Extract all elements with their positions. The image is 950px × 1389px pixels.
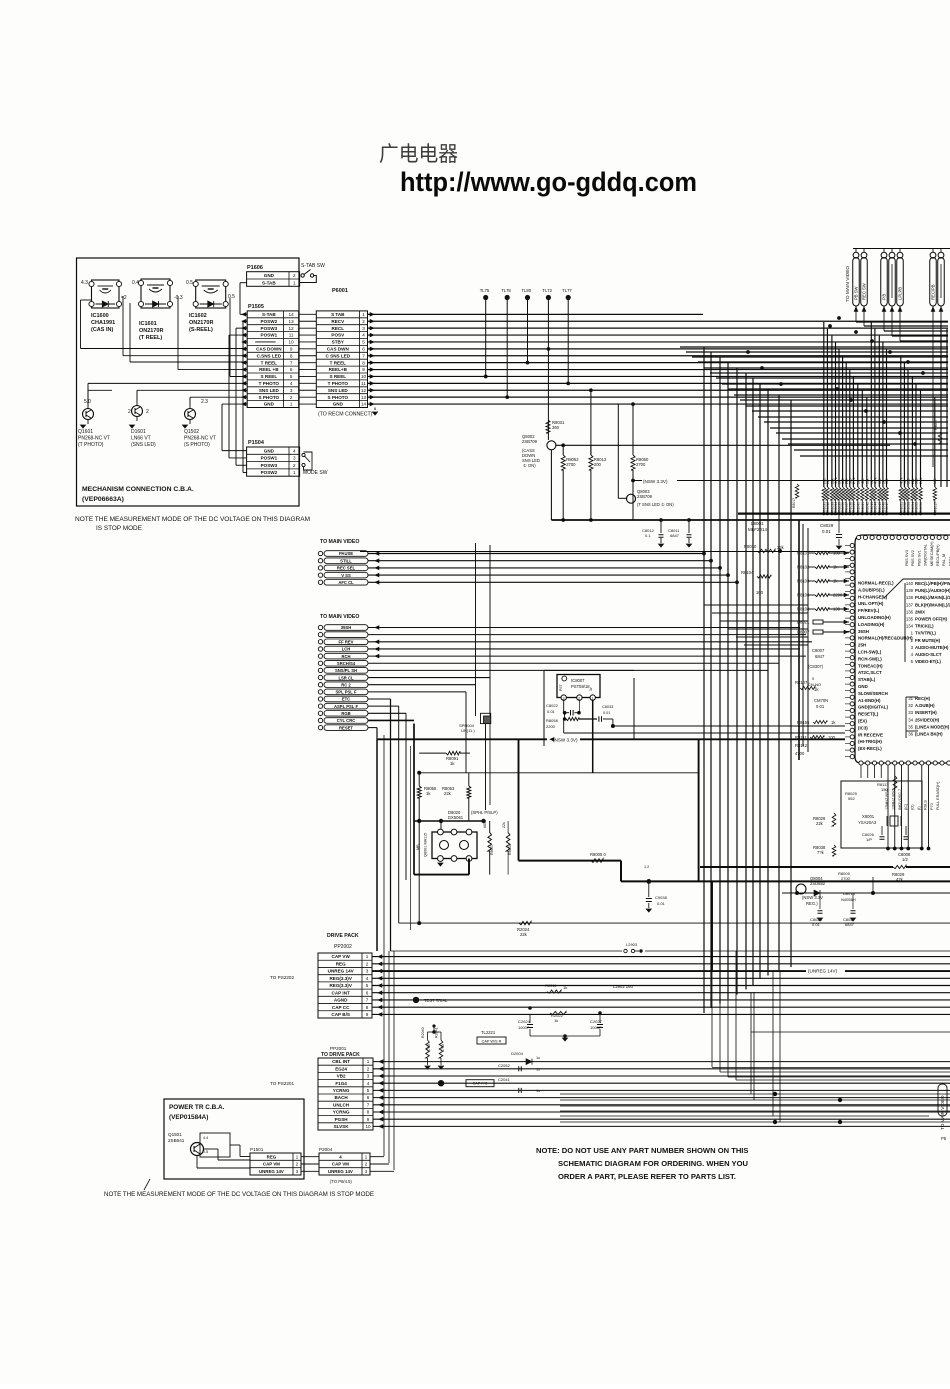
svg-text:CN-NO: CN-NO [808,682,821,687]
svg-text:R8041: R8041 [861,502,865,512]
svg-text:4: 4 [362,333,365,338]
svg-text:R8042: R8042 [865,502,869,512]
svg-text:RCH-SW(L): RCH-SW(L) [858,656,882,661]
svg-text:6847: 6847 [670,533,680,538]
svg-text:LCH: LCH [342,647,351,652]
svg-text:2SB709: 2SB709 [522,439,538,444]
svg-text:TO PS2202: TO PS2202 [270,975,294,980]
svg-text:C8022: C8022 [546,703,559,708]
svg-text:TV/VTR(L): TV/VTR(L) [915,631,936,636]
svg-text:100: 100 [756,590,764,595]
svg-text:TEST TRIAL: TEST TRIAL [424,998,448,1003]
svg-text:RECV: RECV [331,319,345,324]
svg-text:CHA1991: CHA1991 [91,320,115,326]
svg-text:GND: GND [333,402,344,407]
svg-text:1: 1 [366,954,369,959]
svg-text:AFC CL: AFC CL [338,580,354,585]
svg-text:R8044: R8044 [873,502,877,512]
svg-text:REG.): REG.) [806,901,818,906]
svg-text:PGSH: PGSH [335,1117,349,1122]
svg-text:2700: 2700 [636,462,646,467]
svg-text:R8104: R8104 [741,570,754,575]
svg-text:RESET: RESET [339,725,353,730]
svg-text:5: 5 [290,374,293,379]
svg-text:YCRNG: YCRNG [333,1110,350,1115]
svg-text:TRICK(L): TRICK(L) [915,624,934,629]
svg-text:4.3: 4.3 [81,280,88,286]
svg-text:R8053: R8053 [907,502,911,512]
svg-text:2: 2 [578,696,580,700]
svg-text:PST59/18: PST59/18 [571,684,590,689]
svg-text:S TAB: S TAB [331,312,345,317]
svg-text:Q8001 MA115: Q8001 MA115 [424,833,428,857]
svg-text:RGB: RGB [341,711,350,716]
svg-text:139: 139 [906,588,914,593]
svg-text:137: 137 [906,602,914,607]
svg-text:100: 100 [885,478,889,484]
svg-text:4700: 4700 [441,1044,445,1052]
svg-text:S PHOTO: S PHOTO [259,395,280,400]
svg-text:C9038: C9038 [655,895,668,900]
svg-text:CM70N: CM70N [814,698,828,703]
svg-text:0.5: 0.5 [186,280,193,286]
svg-text:http://www.go-gddq.com: http://www.go-gddq.com [400,167,697,197]
svg-text:25VIDEO(H): 25VIDEO(H) [915,717,940,722]
svg-text:136: 136 [906,609,914,614]
svg-text:IC1602: IC1602 [189,313,207,319]
svg-text:GND: GND [264,273,275,278]
svg-text:PN268-NC VT: PN268-NC VT [78,436,110,442]
svg-text:3v: 3v [589,687,593,691]
svg-text:CAP VW: CAP VW [332,954,351,959]
svg-text:1.2: 1.2 [644,865,649,869]
svg-text:(LINEA BK(H): (LINEA BK(H) [915,732,943,737]
svg-text:2: 2 [128,409,131,415]
svg-text:D8014: D8014 [843,891,856,896]
svg-text:T REEL: T REEL [330,360,347,365]
svg-text:11: 11 [361,381,366,386]
svg-text:1k: 1k [563,985,567,990]
svg-text:YSA20A3: YSA20A3 [858,820,877,825]
svg-text:S-TAB: S-TAB [262,312,276,317]
svg-text:140: 140 [906,581,914,586]
svg-text:22k: 22k [444,791,452,796]
svg-text:R8058: R8058 [546,718,559,723]
svg-text:35: 35 [908,724,913,729]
svg-text:2.3: 2.3 [201,399,208,405]
svg-text:PAUSE: PAUSE [339,551,353,556]
svg-text:10: 10 [365,1124,371,1129]
svg-text:14: 14 [361,402,367,407]
svg-text:7: 7 [290,360,293,365]
svg-text:R8055: R8055 [915,502,919,512]
svg-text:2SB709: 2SB709 [637,494,653,499]
svg-text:R8054: R8054 [508,844,512,855]
svg-text:AT2C,SLCT: AT2C,SLCT [858,670,882,675]
svg-text:33: 33 [908,710,913,715]
svg-text:NOTE THE MEASUREMENT MODE OF: NOTE THE MEASUREMENT MODE OF THE DC VOLT… [75,516,310,523]
svg-text:3: 3 [293,456,296,461]
svg-text:C8033: C8033 [602,705,613,709]
svg-text:R8032: R8032 [826,502,830,512]
svg-text:L2902 16u: L2902 16u [613,984,633,989]
svg-text:GND(DIGITAL): GND(DIGITAL) [858,705,888,710]
svg-text:CAP VM: CAP VM [263,1162,280,1167]
svg-text:3: 3 [563,696,565,700]
svg-text:CAS DWN: CAS DWN [327,346,350,351]
svg-text:A.DUB(H): A.DUB(H) [915,703,935,708]
svg-text:1u: 1u [536,1067,540,1071]
svg-text:11: 11 [289,333,294,338]
svg-text:360: 360 [552,425,560,430]
svg-text:PBS SV2: PBS SV2 [911,550,915,566]
svg-text:47k: 47k [896,877,904,882]
svg-text:LCH-SW(L): LCH-SW(L) [858,650,882,655]
svg-text:C8007: C8007 [812,648,825,653]
svg-text:(TO P8/4.5): (TO P8/4.5) [330,1179,352,1184]
svg-text:IS STOP MODE: IS STOP MODE [96,525,142,532]
svg-text:R8056: R8056 [919,502,923,512]
svg-text:4: 4 [367,1081,370,1086]
svg-text:P1606: P1606 [247,265,263,271]
svg-text:552: 552 [848,796,855,801]
svg-text:NORMAL-REC(L): NORMAL-REC(L) [858,581,894,586]
svg-text:R8005 0: R8005 0 [590,852,607,857]
svg-text:CAP F/C: CAP F/C [473,1082,488,1086]
svg-text:0.01: 0.01 [812,922,821,927]
svg-text:22k: 22k [502,822,506,828]
svg-text:2700: 2700 [566,462,576,467]
svg-text:MESECAM(H): MESECAM(H) [930,541,934,566]
svg-text:R2040: R2040 [421,1027,425,1038]
svg-text:2SD882: 2SD882 [810,881,826,886]
svg-text:6800: 6800 [483,820,487,828]
svg-text:R8112: R8112 [795,743,808,748]
svg-text:PN268-NC VT: PN268-NC VT [184,436,216,442]
svg-text:L2903: L2903 [626,942,638,947]
svg-text:3: 3 [290,388,293,393]
svg-text:12MHZ BSC: 12MHZ BSC [891,788,895,810]
svg-text:REG: REG [267,1154,277,1159]
svg-text:TL75: TL75 [480,288,490,293]
svg-text:POSW3: POSW3 [261,326,278,331]
svg-text:PBS SV3: PBS SV3 [905,550,909,566]
svg-text:POSW2: POSW2 [261,319,278,324]
svg-text:LN66 VT: LN66 VT [131,436,151,442]
svg-text:GND: GND [264,402,275,407]
svg-text:2: 2 [293,463,296,468]
svg-text:P70: P70 [930,803,934,810]
svg-text:12: 12 [361,388,367,393]
svg-text:2: 2 [146,409,149,415]
svg-text:P6001: P6001 [332,288,348,294]
svg-text:(IC3): (IC3) [858,725,868,730]
svg-text:P1501: P1501 [250,1147,264,1152]
svg-text:1u: 1u [536,1056,540,1060]
svg-text:6847: 6847 [815,654,825,659]
svg-text:4: 4 [293,448,296,453]
svg-text:S PHOTO: S PHOTO [328,395,349,400]
svg-text:C2041: C2041 [498,1077,511,1082]
svg-text:POSV: POSV [331,333,345,338]
svg-text:(HI-TRIG(H): (HI-TRIG(H) [858,739,882,744]
svg-text:4700: 4700 [795,751,805,756]
svg-text:LOADING(H): LOADING(H) [858,622,885,627]
svg-text:FF/REV(L): FF/REV(L) [858,608,880,613]
svg-text:TL72: TL72 [542,288,552,293]
svg-text:UNL OPT(H): UNL OPT(H) [858,601,884,606]
svg-text:4: 4 [290,381,293,386]
svg-text:A.DUB/PS(L): A.DUB/PS(L) [858,587,885,592]
svg-text:TL77: TL77 [562,288,572,293]
svg-text:(CAS IN): (CAS IN) [91,327,113,333]
svg-text:S-TAB: S-TAB [262,280,276,285]
svg-text:UNREG 14V: UNREG 14V [259,1169,284,1174]
svg-text:(LINEA MODE(H): (LINEA MODE(H) [915,724,950,729]
svg-text:R8039: R8039 [852,502,856,512]
svg-text:REG(3.3)V: REG(3.3)V [329,983,352,988]
svg-text:0.01: 0.01 [547,709,556,714]
svg-text:9: 9 [366,1012,369,1017]
svg-text:IR RECEIVE: IR RECEIVE [858,732,883,737]
svg-text:REEL+B: REEL+B [329,367,348,372]
svg-text:SNS LED: SNS LED [259,388,280,393]
svg-text:13: 13 [289,319,295,324]
svg-text:5: 5 [362,340,365,345]
svg-text:P2004: P2004 [319,1147,333,1152]
svg-text:1: 1 [293,280,296,285]
svg-text:CAP VM: CAP VM [332,1162,349,1167]
svg-text:TL80: TL80 [522,288,532,293]
svg-text:0.5: 0.5 [228,294,235,300]
svg-text:(T REEL): (T REEL) [139,335,162,341]
svg-text:RSLS: RSLS [923,800,927,810]
svg-text:R8057: R8057 [490,844,494,855]
svg-text:R2011: R2011 [545,983,557,988]
svg-text:(NSW 3.3V): (NSW 3.3V) [643,479,668,484]
svg-text:5: 5 [367,1088,370,1093]
svg-text:C.SNS LED: C.SNS LED [257,353,282,358]
svg-text:Q1601: Q1601 [78,429,93,435]
svg-text:SRCH/S4: SRCH/S4 [337,661,356,666]
svg-text:TL78: TL78 [501,288,511,293]
svg-text:UNREG 14V: UNREG 14V [328,1169,353,1174]
svg-text:2: 2 [293,273,296,278]
svg-text:(VEP01584A): (VEP01584A) [169,1114,208,1121]
svg-text:2200: 2200 [546,724,556,729]
svg-text:3: 3 [362,326,365,331]
svg-text:F1G4: F1G4 [335,1081,347,1086]
svg-text:6: 6 [366,990,369,995]
svg-text:1: 1 [362,312,365,317]
svg-text:TO MAIN VIDEO: TO MAIN VIDEO [845,266,851,302]
svg-text:TO MAIN VIDEO: TO MAIN VIDEO [320,614,359,620]
svg-text:R8047: R8047 [885,502,889,512]
svg-text:10: 10 [289,340,295,345]
svg-text:1: 1 [290,402,293,407]
svg-text:BACH: BACH [334,1095,348,1100]
svg-text:POWER TR C.B.A.: POWER TR C.B.A. [169,1104,225,1111]
svg-text:R8107: R8107 [795,680,808,685]
svg-text:7?k: 7?k [817,850,825,855]
svg-text:广电电器: 广电电器 [379,143,458,166]
svg-text:(SNS LED): (SNS LED) [131,442,156,448]
svg-text:AUDIO-MUTE(H): AUDIO-MUTE(H) [915,645,949,650]
svg-text:12: 12 [289,326,295,331]
svg-text:1/2: 1/2 [902,857,908,862]
svg-text:0.1: 0.1 [645,533,651,538]
svg-text:(S-REEL): (S-REEL) [189,327,213,333]
svg-text:P.B: P.B [882,294,887,300]
svg-text:2MIX: 2MIX [915,609,925,614]
svg-text:100: 100 [907,478,911,484]
svg-text:REG(3.3)V: REG(3.3)V [329,976,352,981]
svg-text:5: 5 [366,983,369,988]
svg-text:D8007: D8007 [797,630,810,635]
svg-text:7: 7 [366,998,369,1003]
svg-text:D8021: D8021 [797,620,810,625]
svg-text:2: 2 [362,319,365,324]
svg-text:PP2001: PP2001 [330,1046,347,1051]
svg-text:POSW3: POSW3 [261,463,278,468]
svg-text:SPL PSL F: SPL PSL F [335,690,356,695]
svg-text:3: 3 [367,1074,370,1079]
svg-text:GND: GND [858,684,868,689]
svg-text:35SH: 35SH [341,625,351,630]
svg-text:14: 14 [289,312,295,317]
svg-text:L8001: L8001 [751,521,764,526]
svg-text:T PHOTO: T PHOTO [328,381,349,386]
svg-text:0.01: 0.01 [657,901,666,906]
svg-text:13: 13 [361,395,367,400]
svg-text:IC1600: IC1600 [91,313,109,319]
svg-text:1/P: 1/P [866,837,872,842]
svg-text:NOTE: DO NOT USE ANY PART NUM: NOTE: DO NOT USE ANY PART NUMBER SHOWN O… [536,1146,749,1155]
svg-text:RESET(L): RESET(L) [858,712,879,717]
svg-text:IC8007: IC8007 [571,678,585,683]
svg-text:135: 135 [906,617,914,622]
svg-text:VIDEO-ET(L): VIDEO-ET(L) [915,659,941,664]
svg-text:0.01: 0.01 [816,704,825,709]
svg-text:9: 9 [362,367,365,372]
svg-text:MB: MB [416,844,420,850]
svg-text:TO PS2201: TO PS2201 [270,1081,294,1086]
svg-text:6: 6 [362,346,365,351]
svg-text:TONEAC(H): TONEAC(H) [858,663,883,668]
svg-text:C8029: C8029 [820,523,834,528]
svg-text:R8017: R8017 [934,502,938,512]
svg-text:4: 4 [366,976,369,981]
svg-text:YCRNG: YCRNG [333,1088,350,1093]
svg-text:SNS LED: SNS LED [328,388,349,393]
svg-text:AUDIO-SLCT: AUDIO-SLCT [915,652,942,657]
svg-text:Q1502: Q1502 [184,429,199,435]
svg-text:8: 8 [290,353,293,358]
svg-text:UN(11.): UN(11.) [461,728,475,733]
svg-text:REC(L)/PB(H)/PW: REC(L)/PB(H)/PW [915,581,950,586]
svg-text:V SS: V SS [341,573,351,578]
svg-text:SLOW/SERCH: SLOW/SERCH [858,691,888,696]
svg-text:(S PHOTO): (S PHOTO) [184,442,210,448]
svg-text:(EX): (EX) [858,719,867,724]
svg-text:9: 9 [367,1117,370,1122]
svg-text:8: 8 [367,1110,370,1115]
svg-text:2700: 2700 [841,876,851,881]
svg-text:560: 560 [915,478,919,484]
svg-text:PUN(L)/AUDIO(H)/A: PUN(L)/AUDIO(H)/A [915,588,950,593]
svg-text:(MO)/OSC.7: (MO)/OSC.7 [898,789,902,810]
svg-text:7: 7 [362,353,365,358]
svg-text:8: 8 [366,1005,369,1010]
svg-text:S REEL: S REEL [261,374,278,379]
svg-text:UNLCH: UNLCH [333,1102,350,1107]
svg-text:PP2002: PP2002 [334,944,352,950]
svg-text:STAB(L): STAB(L) [858,677,876,682]
svg-text:0.5: 0.5 [203,1150,208,1154]
svg-text:FR MUTE(H): FR MUTE(H) [915,638,941,643]
svg-text:P1505: P1505 [248,304,264,310]
svg-text:X8001: X8001 [862,814,875,819]
svg-text:0.01: 0.01 [822,529,831,534]
svg-text:1: 1 [293,470,296,475]
svg-text:(VEP06663A): (VEP06663A) [82,496,124,503]
svg-text:TO DRIVE PACK: TO DRIVE PACK [321,1052,360,1058]
svg-text:0.4: 0.4 [132,280,139,286]
svg-text:1: 1 [367,1059,370,1064]
svg-text:7: 7 [367,1102,370,1107]
svg-text:NOTE THE MEASUREMENT MODE OF: NOTE THE MEASUREMENT MODE OF THE DC VOLT… [104,1191,375,1198]
svg-text:4700: 4700 [427,1044,431,1052]
svg-text:CAS DOWN: CAS DOWN [256,346,282,351]
svg-text:POSW1: POSW1 [261,456,278,461]
svg-text:D1601: D1601 [131,429,146,435]
svg-text:(SPHL P/SLP): (SPHL P/SLP) [471,810,498,815]
svg-text:IC1601: IC1601 [139,321,157,327]
svg-text:S-TAB SW: S-TAB SW [301,263,325,269]
svg-text:T REEL: T REEL [261,360,278,365]
svg-text:STILL: STILL [340,558,352,563]
svg-text:LPLPB: LPLPB [898,287,903,300]
svg-text:D2004: D2004 [511,1051,524,1056]
svg-text:(T SNS LED ① ON): (T SNS LED ① ON) [637,502,674,507]
svg-text:R8155: R8155 [797,720,810,725]
svg-text:REG: REG [336,961,346,966]
svg-text:P1504: P1504 [248,440,265,446]
svg-text:470: 470 [861,478,865,484]
svg-text:T PHOTO: T PHOTO [259,381,280,386]
svg-text:PBS SV1: PBS SV1 [917,550,921,566]
svg-text:RCH: RCH [341,654,350,659]
svg-text:22k: 22k [816,821,824,826]
svg-text:CAP W/S R: CAP W/S R [482,1039,502,1043]
svg-text:STBY: STBY [332,340,344,345]
svg-text:1k: 1k [554,1018,558,1023]
svg-text:ORDER A PART, PLEASE REFER TO: ORDER A PART, PLEASE REFER TO PARTS LIST… [558,1172,736,1181]
svg-text:35SH: 35SH [858,629,869,634]
svg-text:6: 6 [290,367,293,372]
svg-text:TO MAIN VIDEO: TO MAIN VIDEO [320,539,359,545]
svg-text:FF REV: FF REV [339,640,354,645]
svg-text:0.01: 0.01 [603,711,610,715]
svg-text:138: 138 [906,595,914,600]
svg-text:PUN(L)/MAIN(L)/2M: PUN(L)/MAIN(L)/2M [915,595,950,600]
svg-text:C2024: C2024 [518,1019,531,1024]
svg-text:DX5061: DX5061 [448,815,464,820]
svg-text:32: 32 [908,703,913,708]
svg-text:CAP B/S: CAP B/S [331,1012,350,1017]
svg-text:36: 36 [908,732,913,737]
svg-text:2SB641: 2SB641 [168,1138,185,1143]
